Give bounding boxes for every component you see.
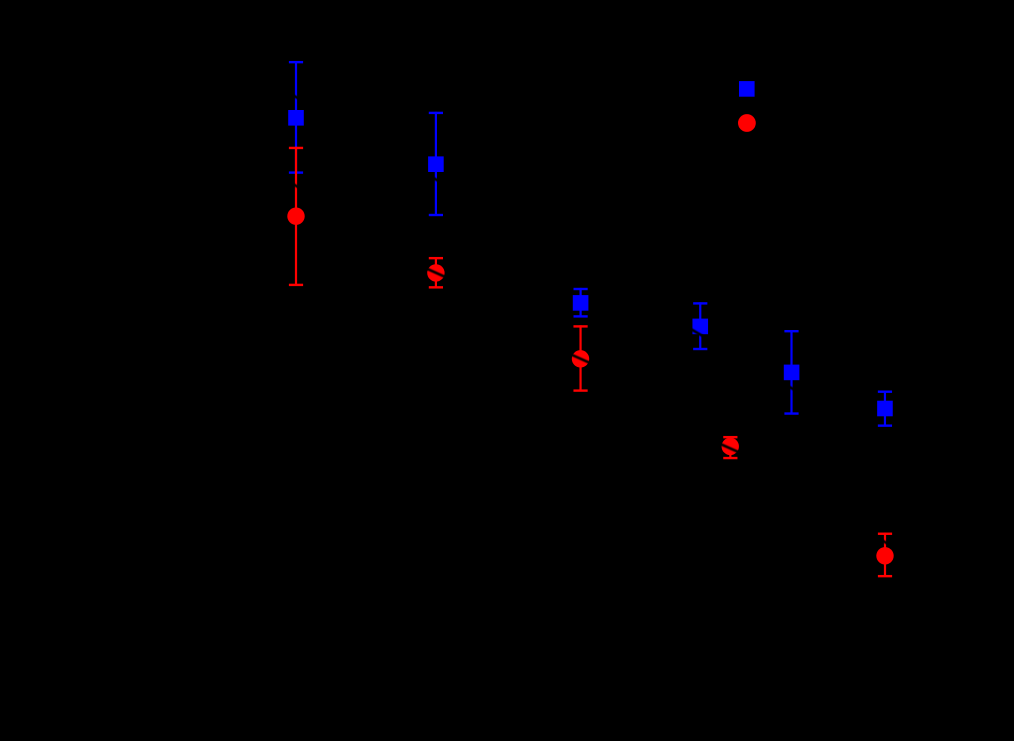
errorbar R2 — [427, 257, 444, 289]
legend circle red — [738, 114, 756, 132]
errorbar R3 — [572, 325, 589, 392]
errorbar B3 — [573, 288, 589, 318]
red series (circles with error bars) — [287, 114, 893, 577]
errorbar B2 — [428, 112, 444, 217]
errorbar B5 — [784, 330, 800, 415]
errorbar B1 — [288, 61, 304, 174]
legend square blue — [739, 81, 755, 97]
blue series (squares with error bars) — [288, 61, 893, 427]
black fit line through blue squares (visible only where it crosses markers) — [0, 0, 1014, 524]
errorbar R1 — [287, 147, 304, 286]
errorbar R6 — [876, 533, 893, 578]
errorbar R4 — [722, 436, 739, 459]
errorbar B4 — [692, 302, 708, 350]
errorbar B6 — [877, 391, 893, 427]
